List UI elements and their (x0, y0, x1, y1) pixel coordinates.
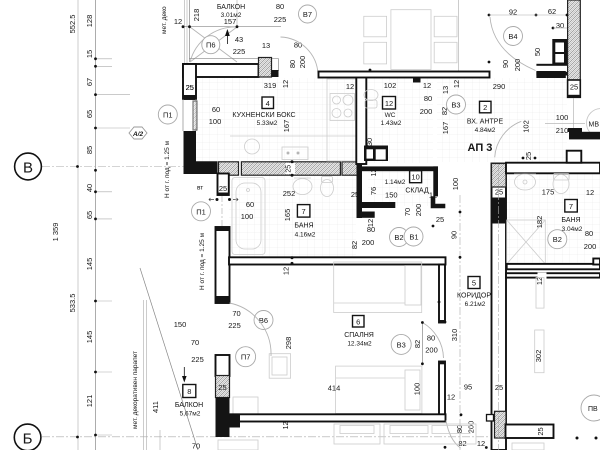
svg-text:25: 25 (536, 427, 545, 435)
svg-text:225: 225 (191, 355, 204, 364)
arrow up (225, 29, 230, 36)
WC label box 12 (383, 97, 396, 110)
arrow down balcony (182, 367, 187, 383)
svg-text:12: 12 (283, 422, 290, 430)
svg-text:43: 43 (235, 35, 243, 44)
svg-text:Н от г. под = 1.25 м: Н от г. под = 1.25 м (199, 232, 206, 290)
svg-text:218: 218 (192, 9, 201, 22)
circle B7 (299, 5, 317, 23)
circle B3 lower (391, 334, 411, 354)
svg-text:225: 225 (274, 15, 287, 24)
circle B3 upper (447, 95, 466, 114)
svg-text:мет. декоративен парапет: мет. декоративен парапет (132, 351, 139, 429)
desk left (269, 354, 290, 379)
svg-text:Б: Б (23, 430, 33, 447)
svg-text:БАНЯ: БАНЯ (294, 223, 313, 230)
svg-text:6.21м2: 6.21м2 (465, 301, 486, 308)
svg-text:25: 25 (570, 83, 578, 92)
label 12 rotated below (538, 273, 547, 284)
door swing X balcony (190, 27, 237, 62)
svg-text:200: 200 (298, 56, 307, 69)
label BALKON 3.01m2 157 (217, 4, 245, 44)
svg-text:10: 10 (411, 173, 419, 182)
svg-text:В7: В7 (303, 10, 312, 19)
wall: below bath2 second wall (506, 273, 600, 277)
bed 1 top (334, 262, 422, 313)
wall: bedroom north double wall (229, 257, 446, 264)
svg-text:А/2: А/2 (132, 131, 144, 138)
door swing bottom bedroom balcony (230, 303, 272, 356)
svg-text:КУХНЕНСКИ БОКС: КУХНЕНСКИ БОКС (232, 112, 295, 119)
left dimension chain ticks (94, 57, 97, 436)
corridor label box 5 (468, 277, 480, 289)
svg-text:БАЛКОН: БАЛКОН (217, 4, 245, 11)
svg-text:252: 252 (283, 189, 296, 198)
svg-text:319: 319 (264, 81, 277, 90)
svg-text:67: 67 (85, 78, 94, 86)
svg-text:В4: В4 (508, 32, 517, 41)
svg-text:80: 80 (288, 60, 297, 68)
dots bedroom north wall (291, 256, 294, 259)
svg-text:50: 50 (533, 48, 542, 56)
svg-text:7: 7 (302, 207, 306, 216)
bottom fixtures light (218, 424, 544, 450)
svg-text:В2: В2 (394, 233, 403, 242)
vertical line x186 balcony (184, 0, 186, 63)
svg-text:60: 60 (246, 200, 254, 209)
axis circle B (15, 153, 42, 180)
svg-text:мет. деко: мет. деко (161, 6, 168, 34)
svg-text:25: 25 (286, 165, 293, 173)
balcony bottom-left diagonal (140, 268, 198, 450)
wall: sklad west foot (357, 210, 363, 218)
svg-text:12.34м2: 12.34м2 (347, 341, 372, 348)
svg-text:128: 128 (85, 15, 94, 28)
wall small black step (272, 70, 279, 77)
circle B2 right (548, 230, 567, 249)
balcony top-left railing lines (190, 0, 238, 62)
vertical line x459 (458, 0, 460, 77)
dots bottom (576, 437, 579, 440)
svg-text:225: 225 (228, 321, 241, 330)
svg-text:167: 167 (441, 122, 450, 135)
svg-text:Н от г. под = 1.25 м: Н от г. под = 1.25 м (164, 140, 171, 198)
balcony 8 label box (183, 385, 196, 398)
wall: bar below band with 25 label (left bath west wall top) (218, 174, 229, 196)
axis badge A/2 (129, 127, 147, 139)
svg-text:8: 8 (187, 387, 191, 396)
svg-text:165: 165 (283, 209, 292, 222)
svg-text:4.16м2: 4.16м2 (295, 232, 316, 239)
svg-text:182: 182 (535, 216, 544, 229)
circles B2 B1 middle (390, 227, 424, 247)
svg-text:12: 12 (346, 82, 354, 91)
svg-text:150: 150 (385, 191, 398, 200)
svg-text:1.43м2: 1.43м2 (381, 120, 402, 127)
svg-text:121: 121 (85, 395, 94, 408)
svg-text:25: 25 (436, 215, 444, 224)
svg-text:145: 145 (85, 258, 94, 271)
svg-text:МВ: МВ (589, 122, 600, 129)
svg-text:145: 145 (85, 331, 94, 344)
svg-text:В3: В3 (451, 101, 460, 110)
svg-text:1.14м2: 1.14м2 (385, 179, 406, 186)
bath2 toilet (553, 174, 569, 194)
dash-dot centreline spine wall (498, 164, 500, 450)
spine wall centreline overlay (498, 164, 500, 450)
bath1 toilet (321, 177, 334, 197)
svg-text:62: 62 (548, 7, 556, 16)
svg-text:12: 12 (385, 99, 393, 108)
svg-text:100: 100 (241, 212, 254, 221)
wall: bath2 north double wall (506, 151, 600, 174)
tall cabinet black right (552, 39, 567, 65)
svg-text:411: 411 (151, 401, 160, 413)
door arc kitchen balcony (281, 37, 319, 74)
balcony bottom-left railing verticals (144, 300, 161, 450)
bed 2 bottom (336, 366, 422, 413)
vertical dimension line left (95, 0, 97, 450)
circle PB partial right bottom (581, 395, 600, 421)
svg-text:3.04м2: 3.04м2 (562, 226, 583, 233)
svg-text:12: 12 (586, 188, 594, 197)
wall: right hatched column top (568, 0, 581, 97)
svg-text:70: 70 (232, 309, 240, 318)
svg-text:ВХ. АНТРЕ: ВХ. АНТРЕ (467, 119, 504, 126)
svg-text:414: 414 (328, 384, 341, 393)
kitchen counter strip with stove (327, 79, 356, 161)
svg-text:70: 70 (192, 442, 200, 450)
svg-text:82: 82 (350, 241, 359, 249)
construction thin lines (42, 0, 499, 450)
svg-text:30: 30 (365, 138, 374, 146)
svg-text:200: 200 (420, 107, 433, 116)
svg-text:13: 13 (441, 86, 450, 94)
svg-text:76: 76 (369, 187, 378, 195)
svg-text:30: 30 (556, 21, 564, 30)
svg-text:310: 310 (450, 329, 459, 342)
svg-text:12: 12 (369, 168, 378, 176)
svg-text:80: 80 (367, 225, 375, 234)
wall hatched block right of L wall (259, 58, 272, 78)
wall: sklad top (362, 166, 438, 171)
svg-text:ПВ: ПВ (588, 406, 598, 413)
svg-text:100: 100 (413, 383, 422, 396)
svg-text:200: 200 (513, 59, 522, 72)
svg-text:80: 80 (427, 334, 435, 343)
light column right (535, 330, 544, 373)
svg-text:65: 65 (85, 211, 94, 219)
wall: bedroom west strip (balcony side) (216, 355, 241, 437)
svg-text:В6: В6 (259, 316, 268, 325)
svg-text:13: 13 (262, 41, 270, 50)
svg-text:167: 167 (282, 120, 291, 133)
svg-text:100: 100 (451, 178, 460, 191)
door arc corridor bottom (446, 421, 461, 449)
floor tile grid kitchen (196, 78, 356, 163)
svg-text:12: 12 (282, 267, 291, 275)
bath1 sink (293, 178, 312, 195)
wall: bedroom east lower segment (439, 362, 445, 416)
svg-text:157: 157 (224, 17, 237, 26)
wall: spine wall double x491-506 (487, 164, 507, 450)
svg-text:2: 2 (483, 103, 487, 112)
svg-text:КОРИДОР: КОРИДОР (457, 293, 491, 300)
svg-text:БАЛКОН: БАЛКОН (175, 402, 203, 409)
bath1 tub (232, 178, 265, 255)
wall: top wall of flat (double) from balcony door to entry (319, 71, 566, 83)
svg-text:4: 4 (266, 99, 270, 108)
svg-text:15: 15 (85, 50, 94, 58)
svg-text:5,67м2: 5,67м2 (180, 411, 201, 418)
svg-text:П1: П1 (163, 111, 173, 120)
floor tile grid sklad (368, 171, 431, 206)
svg-text:5: 5 (472, 279, 476, 288)
svg-text:25: 25 (219, 184, 227, 193)
svg-text:80: 80 (455, 425, 464, 433)
door B4 arc (490, 17, 536, 71)
svg-text:АП 3: АП 3 (468, 142, 493, 154)
svg-text:4.84м2: 4.84м2 (475, 127, 496, 134)
svg-text:200: 200 (414, 204, 423, 217)
circle P6 (202, 36, 220, 54)
svg-text:П7: П7 (241, 353, 251, 362)
floor tile grid bath 2 (494, 173, 600, 264)
svg-text:85: 85 (85, 146, 94, 154)
circle P7 (236, 347, 256, 367)
vertical boundary line left (77, 0, 79, 450)
svg-text:82: 82 (413, 340, 422, 348)
wall: kitchen west L-wall solid (184, 131, 218, 174)
svg-text:200: 200 (584, 242, 597, 251)
svg-text:1 359: 1 359 (51, 223, 60, 242)
kitchen window west thin lines (183, 99, 197, 131)
svg-text:200: 200 (425, 346, 438, 355)
svg-text:200: 200 (362, 238, 375, 247)
bottom bar with 25 (506, 425, 554, 439)
wall: sklad bottom (362, 202, 395, 208)
svg-text:80: 80 (585, 229, 593, 238)
svg-text:В: В (23, 160, 33, 177)
left dimension labels (51, 15, 94, 408)
svg-text:70: 70 (191, 338, 199, 347)
svg-text:25: 25 (524, 152, 533, 160)
wall: top-left outer wall L (double line white core) (183, 64, 259, 99)
svg-text:290: 290 (493, 82, 506, 91)
horizontal centreline from circle Б (42, 436, 490, 438)
circle P1 upper (158, 105, 177, 124)
svg-text:12: 12 (452, 80, 461, 88)
svg-text:100: 100 (556, 113, 569, 122)
bath2 shower with X (507, 220, 546, 264)
svg-text:В1: В1 (409, 233, 418, 242)
svg-text:102: 102 (522, 120, 531, 133)
svg-text:40: 40 (85, 184, 94, 192)
svg-text:150: 150 (174, 320, 187, 329)
svg-text:25: 25 (186, 83, 194, 92)
wall: sklad east (433, 166, 438, 196)
left stub lines (96, 58, 113, 60)
circle B4 (504, 27, 523, 46)
svg-text:П1: П1 (196, 207, 206, 216)
svg-text:В2: В2 (553, 235, 562, 244)
wall: kitchen south hatched band (219, 162, 362, 175)
label MB circle right edge (587, 109, 600, 138)
svg-text:100: 100 (209, 117, 222, 126)
svg-text:25: 25 (351, 190, 359, 199)
door strip right room (536, 278, 544, 309)
svg-text:80: 80 (276, 2, 284, 11)
circle B6 (254, 311, 273, 330)
entry area: label box 2 (480, 101, 492, 113)
wall: bath2 south double wall (507, 259, 600, 270)
wall: WC-kitchen divider double (356, 77, 366, 164)
svg-text:552.5: 552.5 (68, 15, 77, 34)
svg-text:82: 82 (458, 439, 466, 448)
svg-text:СКЛАД: СКЛАД (405, 188, 429, 195)
wall: bedroom east upper segment (439, 265, 445, 323)
svg-text:302: 302 (534, 350, 543, 363)
svg-text:200: 200 (467, 421, 476, 434)
armchair bottom left (233, 397, 258, 414)
svg-text:П6: П6 (206, 41, 216, 50)
svg-text:12: 12 (447, 393, 455, 402)
svg-text:60: 60 (212, 105, 220, 114)
svg-text:80: 80 (424, 94, 432, 103)
sklad label box 10 (410, 171, 422, 183)
bedroom label box 6 (353, 316, 365, 328)
svg-text:6: 6 (356, 317, 360, 326)
svg-text:533.5: 533.5 (68, 294, 77, 313)
door dots P1 opening (216, 198, 219, 201)
svg-text:5.33м2: 5.33м2 (257, 120, 278, 127)
washing machine boxes (364, 146, 388, 162)
svg-text:25: 25 (218, 383, 226, 392)
svg-text:65: 65 (85, 110, 94, 118)
horizontal centreline from circle B (42, 166, 215, 168)
svg-text:12: 12 (477, 439, 485, 448)
svg-text:90: 90 (450, 231, 459, 239)
svg-text:СПАЛНЯ: СПАЛНЯ (344, 332, 374, 339)
svg-text:298: 298 (284, 337, 293, 350)
door arc entry right (495, 121, 522, 157)
svg-text:12: 12 (281, 80, 290, 88)
wall: T-bar bedroom west upper (216, 227, 230, 303)
bath2 sink (514, 174, 536, 190)
svg-text:12: 12 (429, 191, 437, 200)
kitchen stove 4 burners (330, 94, 355, 121)
dots balcony dim (182, 25, 185, 28)
floor tile grid bath 1 (229, 174, 356, 257)
svg-text:70: 70 (403, 208, 412, 216)
svg-text:225: 225 (233, 47, 246, 56)
kitchen counter sink (230, 136, 356, 160)
svg-text:12: 12 (423, 81, 431, 90)
svg-text:7: 7 (569, 202, 573, 211)
WC toilet (364, 90, 378, 109)
wall: bedroom south double wall (229, 414, 446, 421)
wall: sklad door jamb L (431, 196, 446, 208)
dining table set (very light) (364, 10, 457, 70)
floor tile grid entry hall (437, 78, 567, 162)
circle P1 lower (192, 202, 211, 221)
svg-text:95: 95 (464, 383, 472, 392)
svg-text:102: 102 (384, 81, 397, 90)
svg-text:В3: В3 (397, 340, 406, 349)
wall: top wall right segment double lines (536, 64, 567, 76)
svg-text:WC: WC (385, 112, 396, 119)
balcony top dimension line (183, 26, 281, 28)
wall: sklad west (357, 164, 363, 210)
svg-text:вт: вт (197, 185, 203, 192)
floor tile grid WC (361, 78, 433, 163)
wall: right wall segment y132 (568, 128, 600, 139)
svg-text:БАНЯ: БАНЯ (561, 217, 580, 224)
door B3 leaf and arc (421, 323, 423, 364)
dash-dot line x460 corridor (459, 195, 461, 450)
svg-text:175: 175 (542, 188, 555, 197)
axis circle Б (14, 424, 41, 450)
svg-text:90: 90 (501, 60, 510, 68)
svg-text:210: 210 (556, 126, 569, 135)
kitchen label box 4 (262, 97, 274, 109)
svg-text:12: 12 (174, 17, 182, 26)
